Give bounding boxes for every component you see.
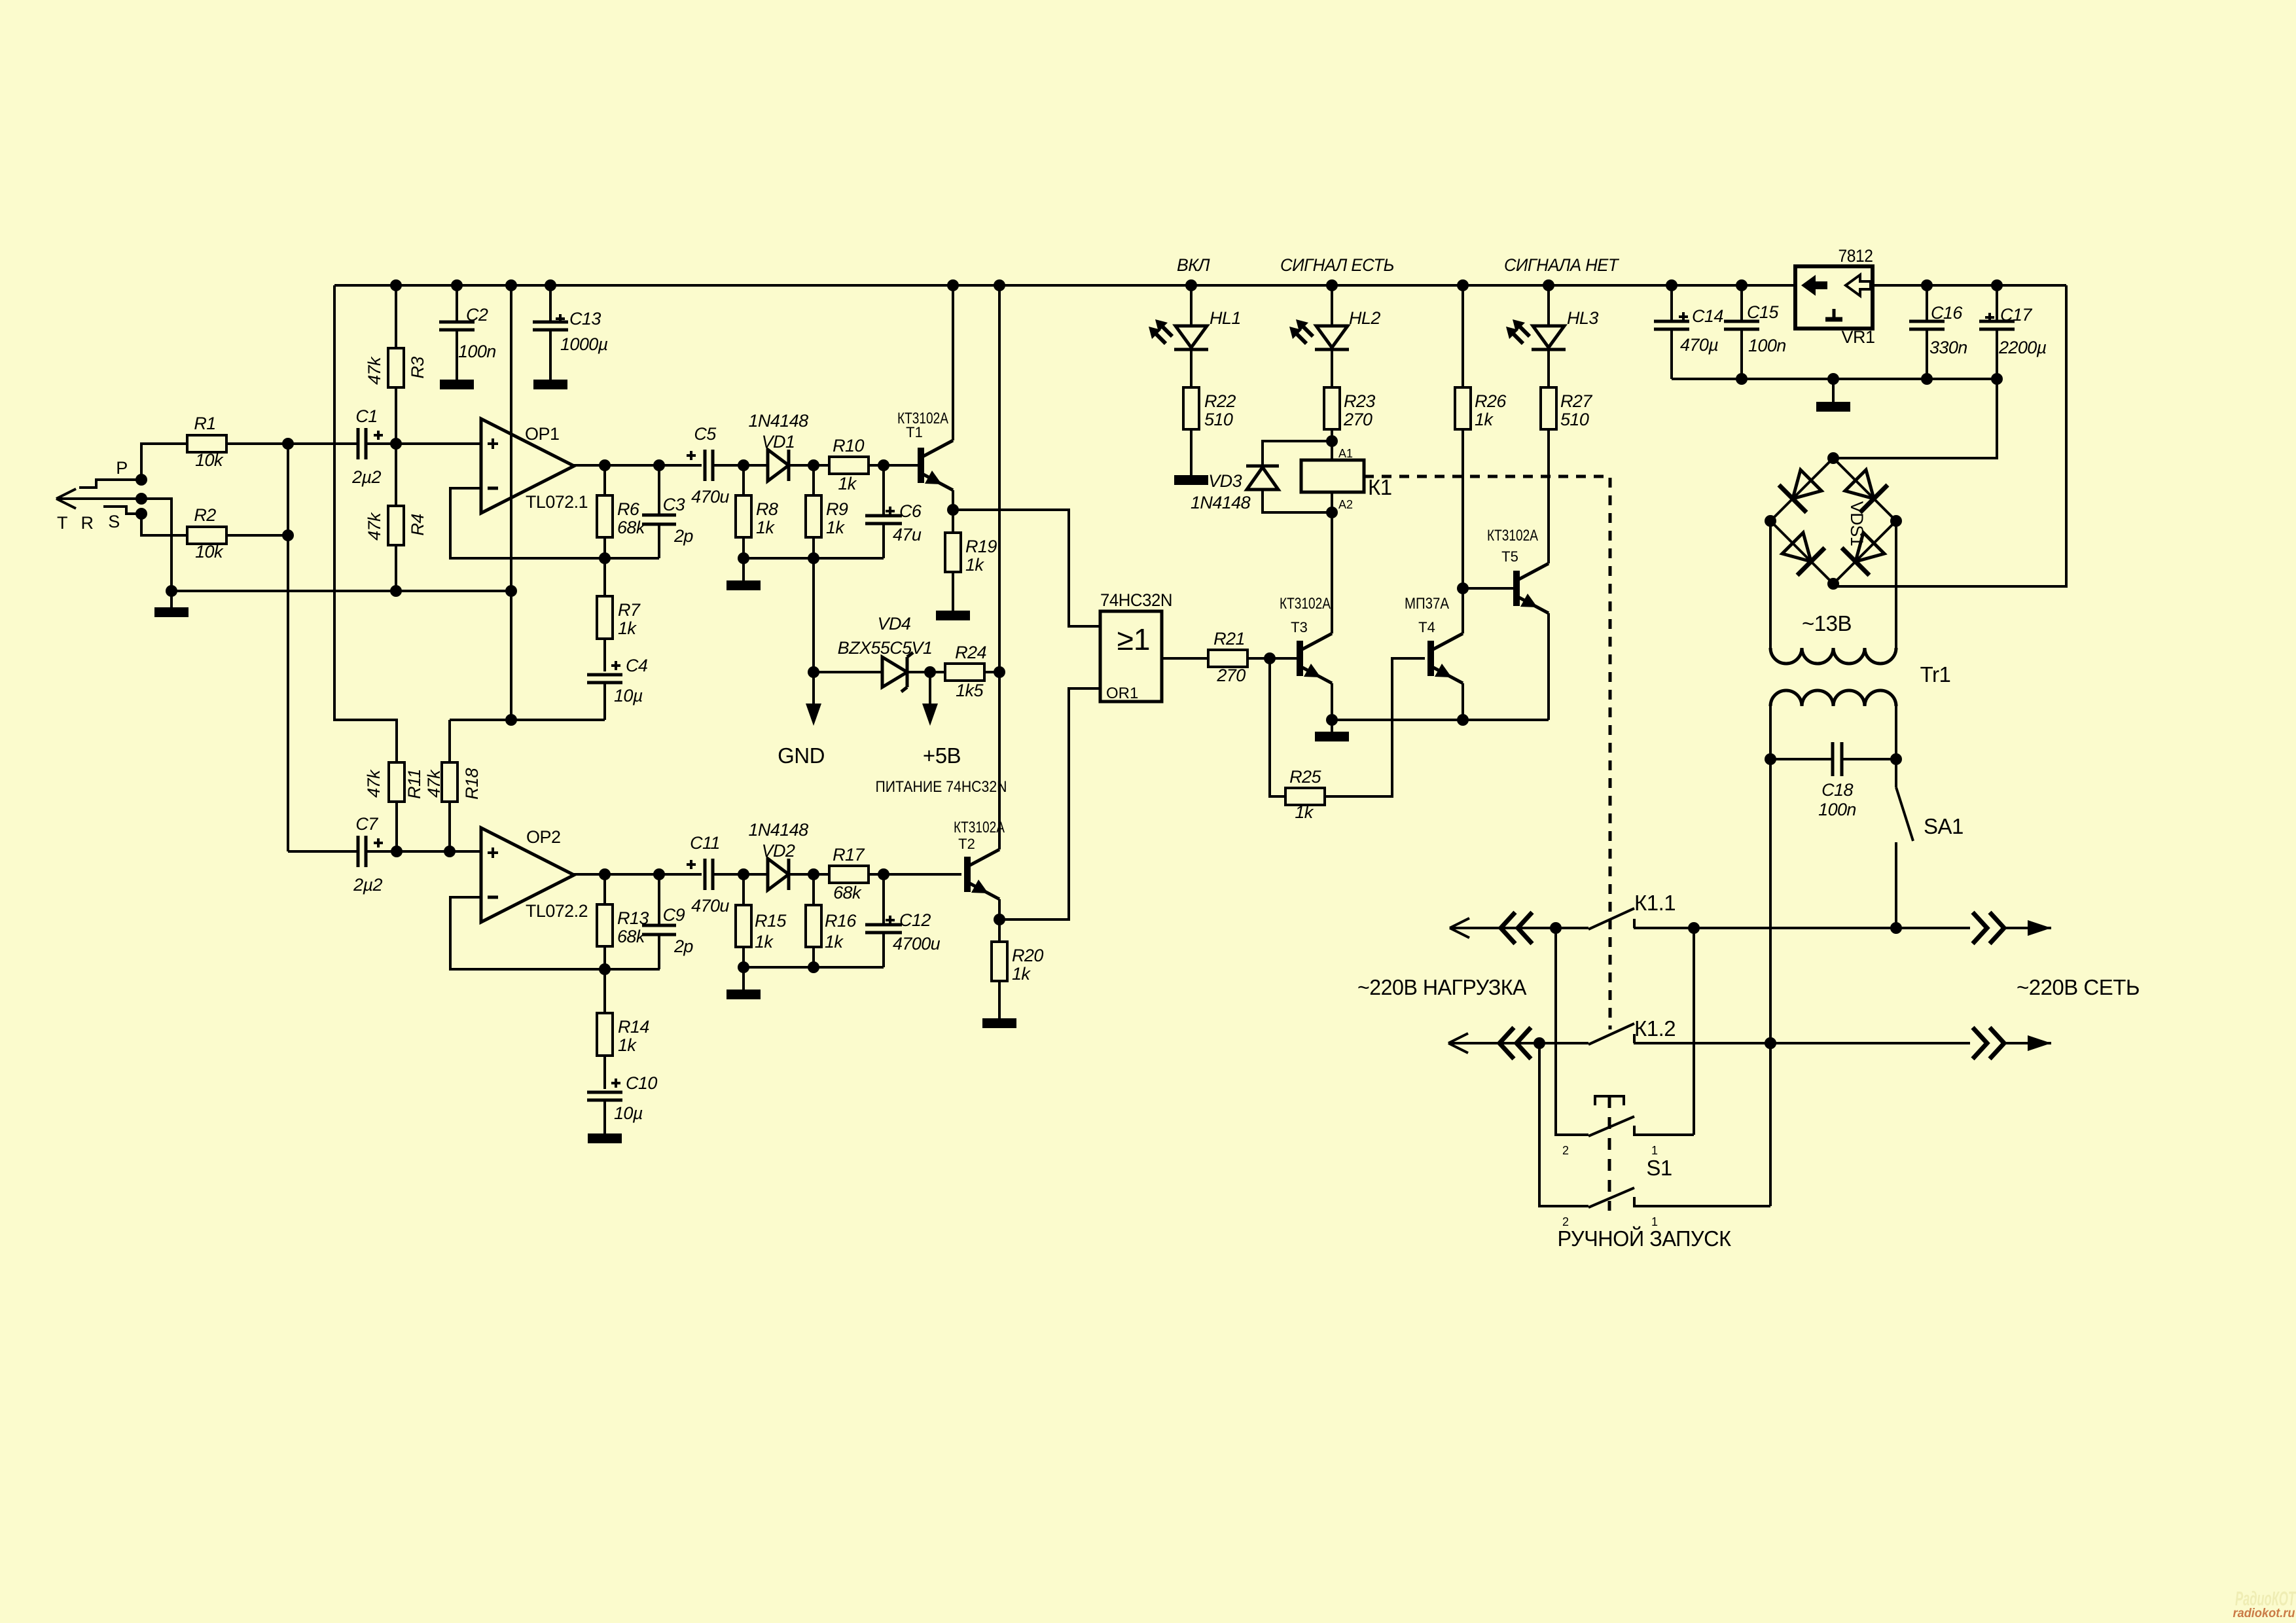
wire +12V top bus	[334, 284, 1795, 287]
svg-text:C11: C11	[690, 833, 720, 853]
svg-text:2: 2	[1562, 1144, 1569, 1157]
svg-text:R24: R24	[955, 643, 986, 662]
svg-text:1N4148: 1N4148	[749, 411, 809, 431]
svg-text:R8: R8	[756, 499, 778, 519]
transistor T1 KT3102A	[884, 464, 918, 467]
svg-text:T4: T4	[1418, 619, 1435, 635]
svg-text:КТ3102А: КТ3102А	[954, 819, 1005, 836]
svg-text:1k: 1k	[838, 474, 857, 493]
wire ring to ground	[141, 499, 171, 607]
op-amp OP1 TL072.1	[481, 419, 574, 513]
svg-text:47k: 47k	[365, 356, 384, 385]
svg-text:R18: R18	[462, 768, 482, 800]
jack sleeve contact	[103, 507, 141, 514]
svg-text:R7: R7	[618, 600, 641, 620]
wire left supply drop to R11 line	[334, 285, 397, 762]
wire T2 collector	[998, 672, 1001, 849]
node ring	[135, 493, 147, 505]
wire VD1 to R10	[789, 464, 829, 467]
svg-text:C17: C17	[2000, 305, 2032, 325]
resistor R13	[603, 874, 606, 904]
resistor R14	[603, 969, 606, 1013]
wire T1 collector	[952, 285, 954, 440]
svg-text:2200µ: 2200µ	[1998, 338, 2047, 357]
wire S to R2	[141, 514, 187, 535]
svg-text:68k: 68k	[833, 883, 862, 902]
capacitor C3	[658, 465, 660, 516]
svg-text:R6: R6	[617, 499, 640, 519]
svg-text:VD2: VD2	[762, 841, 795, 861]
resistor R18	[442, 762, 457, 802]
wire bridge right to secondary	[1895, 521, 1897, 648]
svg-text:R25: R25	[1289, 767, 1321, 787]
wire VD4 to R24	[907, 671, 945, 673]
svg-text:R1: R1	[194, 414, 215, 433]
wire OP2 feedback	[450, 897, 660, 969]
svg-text:VD3: VD3	[1208, 471, 1242, 491]
svg-text:СИГНАЛА НЕТ: СИГНАЛА НЕТ	[1504, 255, 1620, 275]
svg-text:10µ: 10µ	[614, 686, 643, 705]
svg-text:R9: R9	[826, 499, 848, 519]
svg-text:T5: T5	[1501, 548, 1518, 565]
svg-text:1k: 1k	[618, 618, 637, 638]
svg-text:C9: C9	[663, 905, 685, 925]
node bus junctions	[390, 279, 402, 291]
ground R22	[1174, 475, 1208, 485]
ground C13	[533, 380, 567, 389]
wire OP2 output	[574, 874, 702, 875]
node S	[135, 508, 147, 520]
svg-text:74HC32N: 74HC32N	[1100, 590, 1172, 610]
ground C10	[588, 1133, 622, 1143]
capacitor C9	[658, 874, 660, 926]
wire C1 to opamp	[366, 442, 481, 445]
svg-text:1k: 1k	[1475, 410, 1494, 429]
led HL2	[1331, 285, 1333, 326]
svg-text:2µ2: 2µ2	[353, 875, 382, 895]
svg-text:C16: C16	[1931, 303, 1963, 323]
svg-text:10µ: 10µ	[614, 1103, 643, 1123]
wire +5V rail from bus	[998, 285, 1001, 849]
node R4 bottom	[390, 585, 402, 597]
wire OP1 output	[574, 465, 702, 466]
resistor R1	[187, 435, 226, 452]
svg-text:S: S	[108, 512, 120, 531]
resistor R16	[812, 874, 815, 905]
diode VDS1 bottom-right	[1856, 533, 1884, 562]
ground jack	[154, 607, 188, 617]
svg-text:1k: 1k	[755, 932, 774, 952]
svg-text:КТ3102А: КТ3102А	[1487, 527, 1538, 544]
svg-text:VD4: VD4	[878, 614, 911, 633]
wire C11 to VD2	[713, 873, 767, 876]
transistor T4 MP37A	[1427, 641, 1434, 676]
svg-text:10k: 10k	[195, 450, 224, 470]
svg-text:radiokot.ru: radiokot.ru	[2233, 1607, 2295, 1620]
resistor R2	[187, 527, 226, 544]
wire R1 out	[226, 442, 357, 445]
capacitor C1	[357, 428, 360, 459]
wire R15 R16 C12 bottom line	[744, 966, 884, 969]
wire R18/C4 line	[450, 719, 605, 721]
svg-text:BZX55C5V1: BZX55C5V1	[838, 638, 933, 658]
resistor R23	[1331, 349, 1333, 387]
svg-text:OP1: OP1	[525, 424, 560, 444]
svg-text:T: T	[57, 513, 67, 533]
svg-text:SA1: SA1	[1924, 814, 1964, 838]
svg-text:R3: R3	[408, 357, 427, 379]
diode VD2 1N4148	[768, 859, 789, 890]
svg-text:VDS1: VDS1	[1847, 501, 1867, 546]
transistor T5 KT3102A	[1513, 571, 1520, 606]
svg-text:1N4148: 1N4148	[1191, 493, 1251, 512]
capacitor C15	[1740, 285, 1743, 321]
svg-text:2µ2: 2µ2	[351, 467, 381, 487]
resistor R19	[952, 510, 954, 533]
ground R8	[742, 558, 745, 580]
svg-text:47u: 47u	[893, 525, 922, 544]
capacitor C14	[1670, 285, 1673, 321]
svg-text:КТ3102А: КТ3102А	[1280, 595, 1331, 613]
capacitor C6	[882, 465, 885, 516]
winding Tr1 primary	[1770, 690, 1896, 706]
resistor R9	[812, 465, 815, 495]
resistor R8	[742, 465, 745, 495]
resistor R4	[388, 506, 404, 545]
wire supply drop through OP1 to common	[510, 285, 512, 720]
svg-text:≥1: ≥1	[1117, 622, 1151, 656]
svg-text:R11: R11	[404, 769, 424, 799]
wire R21 to T3	[1247, 657, 1297, 660]
capacitor C13	[549, 285, 552, 322]
wire T2 emitter to OR1 input	[999, 688, 1100, 919]
svg-text:P: P	[116, 458, 128, 478]
svg-text:R21: R21	[1213, 629, 1245, 649]
svg-text:C5: C5	[694, 424, 717, 444]
pushbutton actuator S1	[1595, 1096, 1624, 1105]
svg-text:510: 510	[1560, 410, 1589, 429]
wire T4 emitter	[1462, 683, 1464, 720]
svg-text:470µ: 470µ	[1680, 335, 1718, 355]
svg-text:68k: 68k	[617, 927, 646, 946]
svg-text:470u: 470u	[691, 896, 729, 916]
svg-text:РУЧНОЙ ЗАПУСК: РУЧНОЙ ЗАПУСК	[1558, 1226, 1732, 1251]
svg-text:47k: 47k	[364, 769, 384, 798]
wire ground rail	[1672, 378, 1997, 380]
wire T5 collector	[1547, 431, 1550, 563]
svg-text:1k: 1k	[965, 555, 984, 575]
diode VD1 1N4148	[768, 450, 789, 481]
svg-text:C13: C13	[569, 309, 601, 329]
contact K1.2	[1588, 1024, 1634, 1044]
wire common line	[171, 590, 511, 592]
ground T3 emitter	[1331, 720, 1333, 732]
capacitor C7	[288, 850, 358, 853]
wire 220V load line 2 arrow	[1448, 1042, 1588, 1044]
svg-text:R: R	[81, 513, 94, 533]
svg-text:OP2: OP2	[526, 827, 561, 847]
switch SA1	[1895, 759, 1897, 787]
svg-text:T3: T3	[1291, 619, 1308, 635]
regulator VR1 7812	[1795, 266, 1873, 329]
svg-text:R10: R10	[833, 436, 864, 455]
svg-text:КТ3102А: КТ3102А	[897, 410, 948, 427]
svg-text:C2: C2	[466, 305, 488, 325]
capacitor C18	[1770, 758, 1833, 760]
op-amp OP2 TL072.2	[481, 828, 574, 922]
resistor R15	[742, 874, 745, 905]
svg-text:1k5: 1k5	[956, 681, 984, 700]
svg-text:R27: R27	[1560, 391, 1592, 411]
transistor T2 KT3102A	[964, 857, 971, 892]
node P	[135, 474, 147, 486]
svg-text:1k: 1k	[756, 518, 775, 537]
resistor R26	[1462, 285, 1464, 387]
resistor R10	[829, 457, 869, 474]
wire R24 to +5V rail	[984, 671, 999, 673]
wire VD4 anode	[814, 671, 882, 673]
svg-text:1k: 1k	[1295, 802, 1314, 822]
resistor R22	[1190, 349, 1193, 387]
wire R9 to VD4 GND branch	[812, 558, 815, 704]
resistor R27	[1547, 349, 1550, 387]
wire T4 collector	[1462, 588, 1464, 633]
connector XS1 jack plug arrow	[56, 497, 141, 500]
svg-text:1000µ: 1000µ	[560, 334, 608, 354]
svg-text:R20: R20	[1012, 946, 1043, 965]
wire K1.2 to mains	[1634, 1042, 1970, 1044]
capacitor C5	[704, 450, 707, 481]
svg-text:C1: C1	[355, 406, 377, 426]
arrow GND	[806, 704, 821, 726]
svg-text:C18: C18	[1821, 780, 1853, 800]
svg-text:10k: 10k	[195, 542, 224, 562]
svg-text:VD1: VD1	[762, 432, 795, 452]
svg-text:R17: R17	[833, 845, 865, 865]
svg-text:~220В НАГРУЗКА: ~220В НАГРУЗКА	[1357, 975, 1526, 999]
wire mains line 2 arrow	[1973, 1027, 1987, 1059]
ground R20	[982, 1018, 1016, 1028]
svg-text:330n: 330n	[1929, 338, 1967, 357]
svg-text:C10: C10	[626, 1073, 657, 1093]
diode VDS1 top-right	[1845, 470, 1874, 499]
svg-text:~13В: ~13В	[1802, 611, 1852, 635]
svg-text:T2: T2	[958, 836, 975, 852]
svg-text:VR1: VR1	[1841, 327, 1874, 347]
gate OR1 74HC32N	[1100, 611, 1162, 702]
wire relay dashed link	[1364, 476, 1610, 1029]
svg-text:S1: S1	[1646, 1156, 1672, 1180]
svg-text:R4: R4	[408, 514, 427, 535]
svg-text:СИГНАЛ ЕСТЬ: СИГНАЛ ЕСТЬ	[1280, 255, 1394, 275]
wire mains line 1 arrow	[1973, 912, 1987, 944]
svg-text:HL2: HL2	[1349, 308, 1380, 328]
svg-text:100n: 100n	[1748, 336, 1786, 355]
svg-text:1k: 1k	[1012, 964, 1031, 984]
svg-text:2p: 2p	[673, 936, 693, 956]
svg-text:ВКЛ: ВКЛ	[1177, 255, 1210, 275]
wire bridge left to secondary	[1769, 521, 1772, 648]
jack tip contact	[79, 480, 141, 488]
svg-text:R23: R23	[1344, 391, 1375, 411]
wire P to R1	[141, 444, 187, 480]
diode VDS1 top-left	[1793, 470, 1821, 499]
transistor T3 KT3102A	[1297, 641, 1303, 676]
diode VDS1 bottom-left	[1782, 533, 1811, 562]
wire T2 emitter node	[998, 899, 1001, 919]
capacitor C17	[1996, 285, 1998, 321]
svg-text:OR1: OR1	[1106, 685, 1138, 702]
wire T1 emitter to OR1 input	[953, 510, 1100, 626]
svg-text:C12: C12	[899, 910, 931, 930]
ground VR1 rail	[1832, 379, 1835, 402]
svg-text:TL072.1: TL072.1	[526, 492, 588, 512]
wire T3 emitter	[1331, 683, 1333, 720]
svg-text:C3: C3	[663, 495, 685, 514]
svg-text:1k: 1k	[826, 518, 845, 537]
wire OP1 feedback	[450, 488, 659, 558]
ground C2	[440, 380, 474, 389]
capacitor C4	[603, 639, 606, 671]
capacitor C12	[882, 874, 885, 925]
wire T5 base	[1463, 587, 1513, 590]
led HL3	[1547, 285, 1550, 326]
svg-text:T1: T1	[906, 424, 923, 440]
svg-text:47k: 47k	[424, 769, 444, 798]
svg-text:~220В СЕТЬ: ~220В СЕТЬ	[2017, 975, 2140, 999]
svg-text:R15: R15	[755, 911, 787, 931]
wire T3 collector to relay	[1331, 512, 1333, 633]
svg-text:47k: 47k	[365, 512, 384, 541]
svg-text:4700u: 4700u	[893, 934, 941, 954]
svg-text:100n: 100n	[1818, 800, 1856, 819]
wire R25 to T4 base	[1325, 658, 1425, 796]
diode VD3 1N4148	[1263, 441, 1332, 466]
svg-text:A2: A2	[1338, 498, 1353, 511]
wire C5 to VD1	[713, 464, 767, 467]
resistor R3	[388, 348, 404, 387]
svg-text:C7: C7	[355, 814, 378, 834]
svg-text:68k: 68k	[617, 518, 646, 537]
svg-text:A1: A1	[1338, 447, 1353, 460]
svg-text:К1: К1	[1368, 475, 1392, 499]
resistor R21	[1208, 650, 1247, 667]
wire C17 to bridge +	[1833, 379, 1997, 458]
wire 220V load line 1 arrow	[1450, 927, 1588, 929]
wire R10 to T1	[869, 464, 915, 467]
wire input bias vertical	[287, 444, 289, 851]
resistor R11	[389, 762, 404, 802]
capacitor C16	[1926, 285, 1928, 321]
svg-text:C6: C6	[899, 501, 922, 521]
wire T1 emitter node	[952, 490, 954, 510]
svg-text:C14: C14	[1692, 306, 1723, 326]
winding Tr1 secondary	[1770, 648, 1896, 664]
wire primary left leg	[1769, 706, 1772, 1043]
svg-text:1k: 1k	[618, 1035, 637, 1055]
resistor R25	[1270, 658, 1285, 796]
svg-text:R14: R14	[618, 1017, 649, 1037]
switch S1 pole 2	[1539, 1043, 1588, 1206]
rectifier bridge VDS1	[1770, 458, 1896, 584]
wire K1.1 to SA1 and mains	[1634, 927, 1970, 929]
svg-text:1: 1	[1651, 1144, 1658, 1157]
svg-text:R16: R16	[825, 911, 857, 931]
svg-text:HL1: HL1	[1210, 308, 1241, 328]
ground R19	[936, 611, 970, 620]
resistor R24	[945, 664, 984, 681]
capacitor C10	[603, 1056, 606, 1089]
resistor R17	[829, 866, 869, 883]
svg-text:R26: R26	[1475, 391, 1507, 411]
resistor R7	[603, 558, 606, 596]
capacitor C2	[456, 285, 458, 322]
svg-text:R2: R2	[194, 505, 216, 525]
svg-text:Tr1: Tr1	[1920, 662, 1951, 687]
switch S1 pole 1	[1556, 928, 1588, 1135]
resistor R20	[998, 919, 1001, 942]
arrow +5B	[929, 672, 931, 704]
wire bus right to bridge -	[1833, 285, 2066, 586]
resistor R6	[603, 465, 606, 495]
ground R15	[742, 967, 745, 990]
wire R8 R9 C6 bottom line	[744, 557, 884, 560]
svg-text:К1.1: К1.1	[1634, 891, 1676, 915]
diode VD4 BZX55C5V1 zener	[882, 657, 907, 687]
contact K1.1	[1588, 908, 1634, 929]
svg-text:TL072.2: TL072.2	[526, 901, 588, 921]
svg-text:+5В: +5В	[923, 743, 961, 768]
wire R2 out	[226, 534, 288, 537]
wire primary right leg	[1895, 706, 1897, 759]
svg-text:ПИТАНИЕ 74HC32N: ПИТАНИЕ 74HC32N	[876, 778, 1007, 796]
svg-text:МП37А: МП37А	[1405, 595, 1449, 613]
wire OR1 output	[1162, 657, 1208, 660]
svg-text:HL3: HL3	[1567, 308, 1598, 328]
svg-text:GND: GND	[778, 743, 825, 768]
svg-text:470u: 470u	[691, 487, 729, 507]
wire emitter bus	[1332, 719, 1549, 721]
svg-text:2p: 2p	[673, 526, 693, 546]
svg-text:270: 270	[1343, 410, 1372, 429]
svg-text:7812: 7812	[1839, 246, 1873, 266]
svg-text:510: 510	[1204, 410, 1233, 429]
svg-text:R19: R19	[965, 537, 997, 556]
svg-text:1N4148: 1N4148	[749, 820, 809, 840]
relay K1 coil	[1301, 460, 1364, 492]
svg-text:100n: 100n	[458, 342, 496, 361]
svg-text:К1.2: К1.2	[1634, 1016, 1676, 1041]
svg-text:C15: C15	[1747, 302, 1779, 322]
svg-text:C4: C4	[626, 656, 647, 675]
svg-text:270: 270	[1216, 666, 1246, 685]
wire T5 emitter	[1547, 613, 1550, 720]
svg-text:1k: 1k	[825, 932, 844, 952]
wire VD2 to R17	[789, 873, 829, 876]
wire C7 to OP2	[366, 850, 481, 853]
led HL1	[1190, 285, 1193, 326]
capacitor C11	[704, 859, 707, 890]
wire R17 to T2	[869, 873, 961, 876]
svg-text:R22: R22	[1204, 391, 1236, 411]
